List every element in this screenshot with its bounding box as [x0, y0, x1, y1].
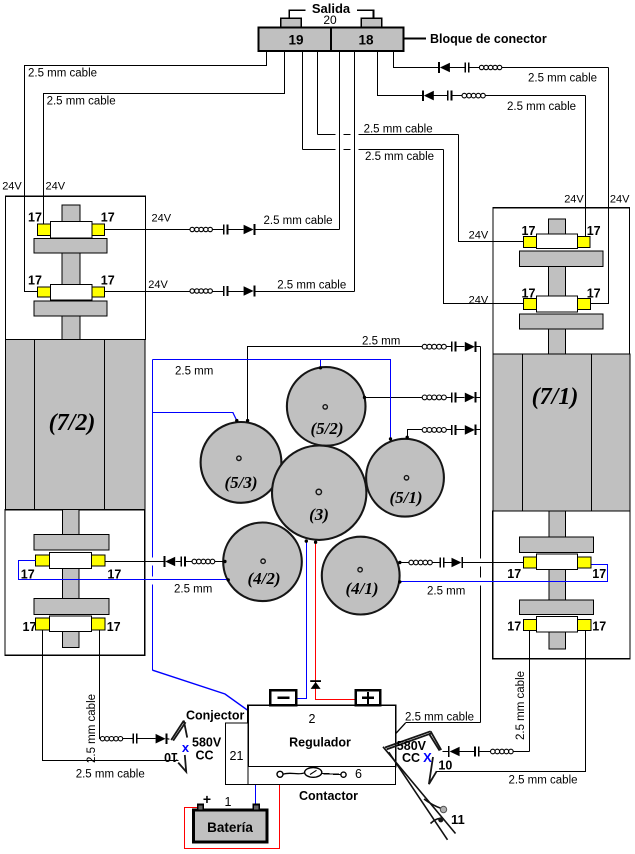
svg-text:2.5 mm cable: 2.5 mm cable: [47, 96, 116, 108]
terminal 17 (7/2 bottom upper-right): [92, 555, 105, 566]
svg-text:2.5 mm cable: 2.5 mm cable: [76, 769, 145, 781]
shaft 7/1 lower-end: [549, 632, 565, 649]
shaft 7/2 top: [62, 205, 80, 221]
terminal 17 (7/1 lower right): [578, 299, 591, 310]
svg-text:(3): (3): [309, 505, 329, 524]
svg-text:24V: 24V: [610, 194, 630, 206]
diode on red wire: [310, 680, 321, 682]
svg-text:24V: 24V: [2, 181, 22, 193]
slip-ring bar 7/2 lower-2: [50, 616, 92, 632]
blue wire 7/2 bottom terminal to rotor 4/2 bottom: [19, 561, 229, 580]
pointer Bloque de conector: [405, 38, 427, 40]
DC bus down to regulator: [480, 347, 482, 559]
terminal 17 (7/2 bottom lower-right): [92, 618, 105, 630]
shaft 7/2 lower-end: [62, 632, 79, 648]
cable to brushes 11: [383, 747, 456, 840]
svg-text:2.5 mm cable: 2.5 mm cable: [515, 671, 527, 740]
shaft 7/2 bottom: [62, 316, 80, 339]
svg-text:17: 17: [587, 224, 601, 238]
wire 580V right connector chain: [443, 751, 449, 753]
bearing plate 7/1 lower-1: [520, 537, 594, 552]
terminal 17 (7/2 bottom lower-left): [35, 618, 49, 630]
svg-text:Regulador: Regulador: [289, 736, 351, 750]
contactor switch 6: [277, 771, 283, 777]
wire pin2 block19 to 7/2 upper-left terminal: [44, 51, 285, 225]
svg-text:17: 17: [101, 211, 115, 225]
wire pin7 block18 to 7/1 upper-right terminal: [378, 51, 424, 96]
terminal 17 (7/2 upper right): [92, 224, 105, 235]
svg-text:17: 17: [507, 620, 521, 634]
connector star right (10, 580V CC): [385, 731, 441, 784]
rotor disc 5/3: [201, 422, 282, 503]
shaft 7/2 lower-top: [62, 510, 79, 535]
generator frame top-left (7/2 upper slip-ring housing): [6, 196, 146, 339]
svg-text:2.5 mm cable: 2.5 mm cable: [86, 694, 98, 763]
wire 7/2 bottom-right down to 580V connector (upper): [100, 630, 101, 739]
svg-text:17: 17: [592, 620, 606, 634]
output tab 18: [361, 18, 382, 27]
svg-text:2.5 mm: 2.5 mm: [174, 584, 212, 596]
slip-ring bar 7/2 lower: [50, 285, 92, 301]
svg-text:2.5 mm cable: 2.5 mm cable: [264, 215, 333, 227]
generator frame bottom-right (7/1 lower slip-ring housing): [493, 511, 630, 659]
svg-text:(5/2): (5/2): [310, 419, 343, 438]
terminal 17 (7/2 bottom upper-left): [35, 555, 49, 566]
salida bracket right: [357, 10, 373, 18]
rotor disc 5/1: [366, 439, 444, 517]
svg-text:24V: 24V: [148, 279, 168, 291]
rotor disc 4/1: [322, 537, 400, 615]
svg-text:19: 19: [288, 33, 303, 48]
svg-text:17: 17: [107, 568, 121, 582]
wire 7/2 lower 24V with inductor capacitor diode: [105, 291, 191, 293]
hub of 4/1: [358, 568, 362, 572]
blue wire rotor 4/1 to 7/1 bottom terminal: [400, 565, 608, 582]
output tab 19: [281, 18, 302, 27]
slip-ring bar 7/1 upper: [537, 234, 578, 249]
terminal 17 (7/1 bottom lower-right): [578, 620, 591, 631]
svg-text:2.5 mm: 2.5 mm: [427, 586, 465, 598]
svg-text:(7/1): (7/1): [532, 384, 579, 410]
svg-text:17: 17: [507, 567, 521, 581]
bearing plate 7/1 lower: [520, 314, 603, 329]
shaft 7/1 bottom: [548, 329, 565, 354]
svg-text:6: 6: [355, 767, 362, 781]
contactor strip: [248, 767, 396, 785]
wire pin8 block18 to 7/1 lower-right terminal: [394, 51, 440, 68]
bearing plate 7/1 lower-2: [520, 600, 594, 615]
regulator box 2: [248, 705, 396, 766]
slip-ring bar 7/2 lower-1: [50, 553, 92, 569]
svg-text:2.5 mm cable: 2.5 mm cable: [364, 124, 433, 136]
rotor disc 3 (center): [272, 446, 366, 540]
battery terminal left: [198, 805, 204, 811]
generator body 7/2: [6, 339, 145, 509]
slip-ring bar 7/1 lower-2: [537, 617, 578, 632]
slip-ring bar 7/1 lower-1: [537, 554, 578, 569]
svg-text:Bloque de conector: Bloque de conector: [430, 32, 547, 46]
svg-text:17: 17: [28, 211, 42, 225]
svg-text:Batería: Batería: [207, 820, 253, 835]
svg-text:17: 17: [107, 620, 121, 634]
generator frame bottom-left (7/2 lower slip-ring housing): [5, 510, 145, 656]
wire 7/2 upper 24V with inductor capacitor diode: [105, 229, 191, 231]
svg-text:Conjector: Conjector: [186, 709, 244, 723]
blue wire rotor 3 to regulator minus: [297, 542, 307, 699]
slip-ring bar 7/1 lower: [537, 296, 578, 312]
svg-text:17: 17: [592, 567, 606, 581]
bearing plate 7/2 lower: [34, 301, 107, 316]
svg-text:17: 17: [522, 224, 536, 238]
wire rotor 5/1 to DC bus (group 3): [408, 430, 423, 438]
svg-text:2.5 mm: 2.5 mm: [362, 336, 400, 348]
svg-text:24V: 24V: [469, 295, 489, 307]
bearing plate 7/2 lower-2: [34, 599, 109, 615]
hub of 5/3: [237, 456, 241, 460]
svg-text:17: 17: [587, 286, 601, 300]
svg-text:17: 17: [21, 568, 35, 582]
svg-text:2: 2: [309, 712, 316, 726]
rotor disc 5/2: [287, 367, 366, 446]
battery terminal right: [253, 805, 259, 811]
svg-text:(7/2): (7/2): [49, 410, 96, 436]
blue wire to regulator minus via Conjector: [153, 670, 262, 720]
svg-text:11: 11: [451, 812, 465, 827]
bearing plate 7/2 lower-1: [34, 535, 109, 551]
wire rotor 5/2 to DC bus (group 2): [365, 397, 423, 399]
svg-text:10: 10: [164, 750, 178, 764]
terminal 17 (7/2 lower right): [92, 287, 105, 297]
shaft 7/1 lower-top: [549, 511, 565, 537]
plus terminal of regulator: [356, 690, 381, 705]
wire 7/1 bottom-left down to 580V connector (upper): [529, 631, 531, 752]
terminal 17 (7/1 upper right): [578, 236, 590, 247]
svg-text:24V: 24V: [469, 230, 489, 242]
terminal 17 (7/2 upper left): [37, 224, 50, 235]
svg-text:2.5 mm: 2.5 mm: [175, 366, 213, 378]
connector star left (10, 580V CC): [171, 721, 187, 772]
bearing plate 7/2 upper: [34, 239, 107, 253]
hub of 5/2: [323, 405, 327, 409]
svg-text:24V: 24V: [152, 213, 172, 225]
svg-text:20: 20: [323, 13, 337, 27]
svg-text:CC: CC: [402, 751, 420, 765]
connector block 19 / 18: [258, 27, 403, 51]
terminal 17 (7/1 bottom upper-left): [523, 557, 536, 568]
red wire battery to contactor: [185, 778, 280, 849]
wire rotor 5/3 to DC bus (group 1): [248, 347, 423, 421]
svg-text:17: 17: [28, 274, 42, 288]
svg-text:(4/2): (4/2): [247, 569, 280, 588]
shaft 7/2 lower-mid: [62, 569, 79, 599]
svg-text:2.5 mm cable: 2.5 mm cable: [507, 101, 576, 113]
rotor disc 4/2: [223, 523, 302, 602]
svg-text:1: 1: [225, 795, 232, 809]
box 21: [226, 723, 249, 785]
svg-text:580V: 580V: [192, 736, 222, 750]
hub of 4/2: [261, 559, 265, 563]
hub of 5/1: [404, 476, 408, 480]
blue wire net rotors 5/x: [152, 360, 154, 558]
terminal 17 (7/1 bottom upper-right): [578, 557, 591, 568]
shaft 7/2 middle: [62, 253, 80, 285]
slip-ring bar 7/2 upper: [50, 222, 92, 238]
terminal 17 (7/2 lower left): [37, 287, 50, 297]
svg-text:24V: 24V: [46, 181, 66, 193]
salida bracket left: [289, 10, 305, 18]
wire 7/1 bottom-right down to 580V connector (lower): [437, 631, 586, 772]
svg-text:Contactor: Contactor: [299, 789, 358, 803]
shaft 7/1 top: [548, 219, 565, 234]
svg-text:CC: CC: [196, 749, 214, 763]
svg-text:2.5 mm cable: 2.5 mm cable: [277, 280, 346, 292]
battery: [194, 810, 267, 842]
bearing plate 7/1 upper: [520, 251, 603, 266]
wire 7/2 bottom terminal to rotor 4/2: [106, 561, 165, 563]
generator frame top-right (7/1 upper slip-ring housing): [493, 208, 629, 354]
wire 7/2 bottom-left down to 580V connector (lower): [43, 630, 179, 761]
svg-text:(5/3): (5/3): [224, 473, 257, 492]
svg-text:21: 21: [230, 749, 244, 763]
svg-text:x: x: [182, 740, 190, 755]
wire pin5 block18 down to 7/2 upper wire: [339, 51, 341, 230]
wire pin1 block19 to 7/2 lower-left terminal: [25, 51, 267, 292]
wire rotor 4/1 to 7/1 bottom terminal: [400, 562, 409, 564]
terminal 17 (7/1 upper left): [523, 236, 536, 247]
hub of 3: [316, 489, 321, 494]
generator body 7/1: [493, 354, 630, 511]
red wire rotor 3 to regulator plus: [316, 543, 356, 700]
svg-text:17: 17: [101, 274, 115, 288]
svg-text:2.5 mm cable: 2.5 mm cable: [509, 775, 578, 787]
svg-text:10: 10: [438, 759, 452, 773]
svg-text:2.5 mm cable: 2.5 mm cable: [365, 151, 434, 163]
svg-text:X: X: [423, 750, 432, 765]
svg-text:2.5 mm cable: 2.5 mm cable: [528, 73, 597, 85]
svg-text:2.5 mm cable: 2.5 mm cable: [28, 68, 97, 80]
shaft 7/1 lower-mid: [549, 570, 565, 601]
terminal 17 (7/1 lower left): [523, 299, 536, 310]
wire pin6 block18 down to 7/2 lower wire: [354, 51, 356, 292]
wire pin3 block19 to 7/1 lower-left terminal: [302, 51, 304, 150]
svg-text:2.5 mm cable: 2.5 mm cable: [405, 712, 474, 724]
wire pin4 block19 to 7/1 upper-left terminal: [317, 51, 319, 135]
svg-text:(4/1): (4/1): [345, 579, 378, 598]
svg-text:(5/1): (5/1): [389, 488, 422, 507]
svg-text:18: 18: [358, 33, 374, 48]
minus terminal of regulator: [270, 690, 296, 705]
svg-text:17: 17: [522, 286, 536, 300]
shaft 7/1 middle: [548, 266, 565, 296]
svg-text:17: 17: [23, 620, 37, 634]
svg-text:24V: 24V: [564, 194, 584, 206]
svg-text:+: +: [203, 791, 211, 807]
terminal 17 (7/1 bottom lower-left): [523, 620, 536, 631]
blue wire contactor to battery: [255, 785, 257, 806]
